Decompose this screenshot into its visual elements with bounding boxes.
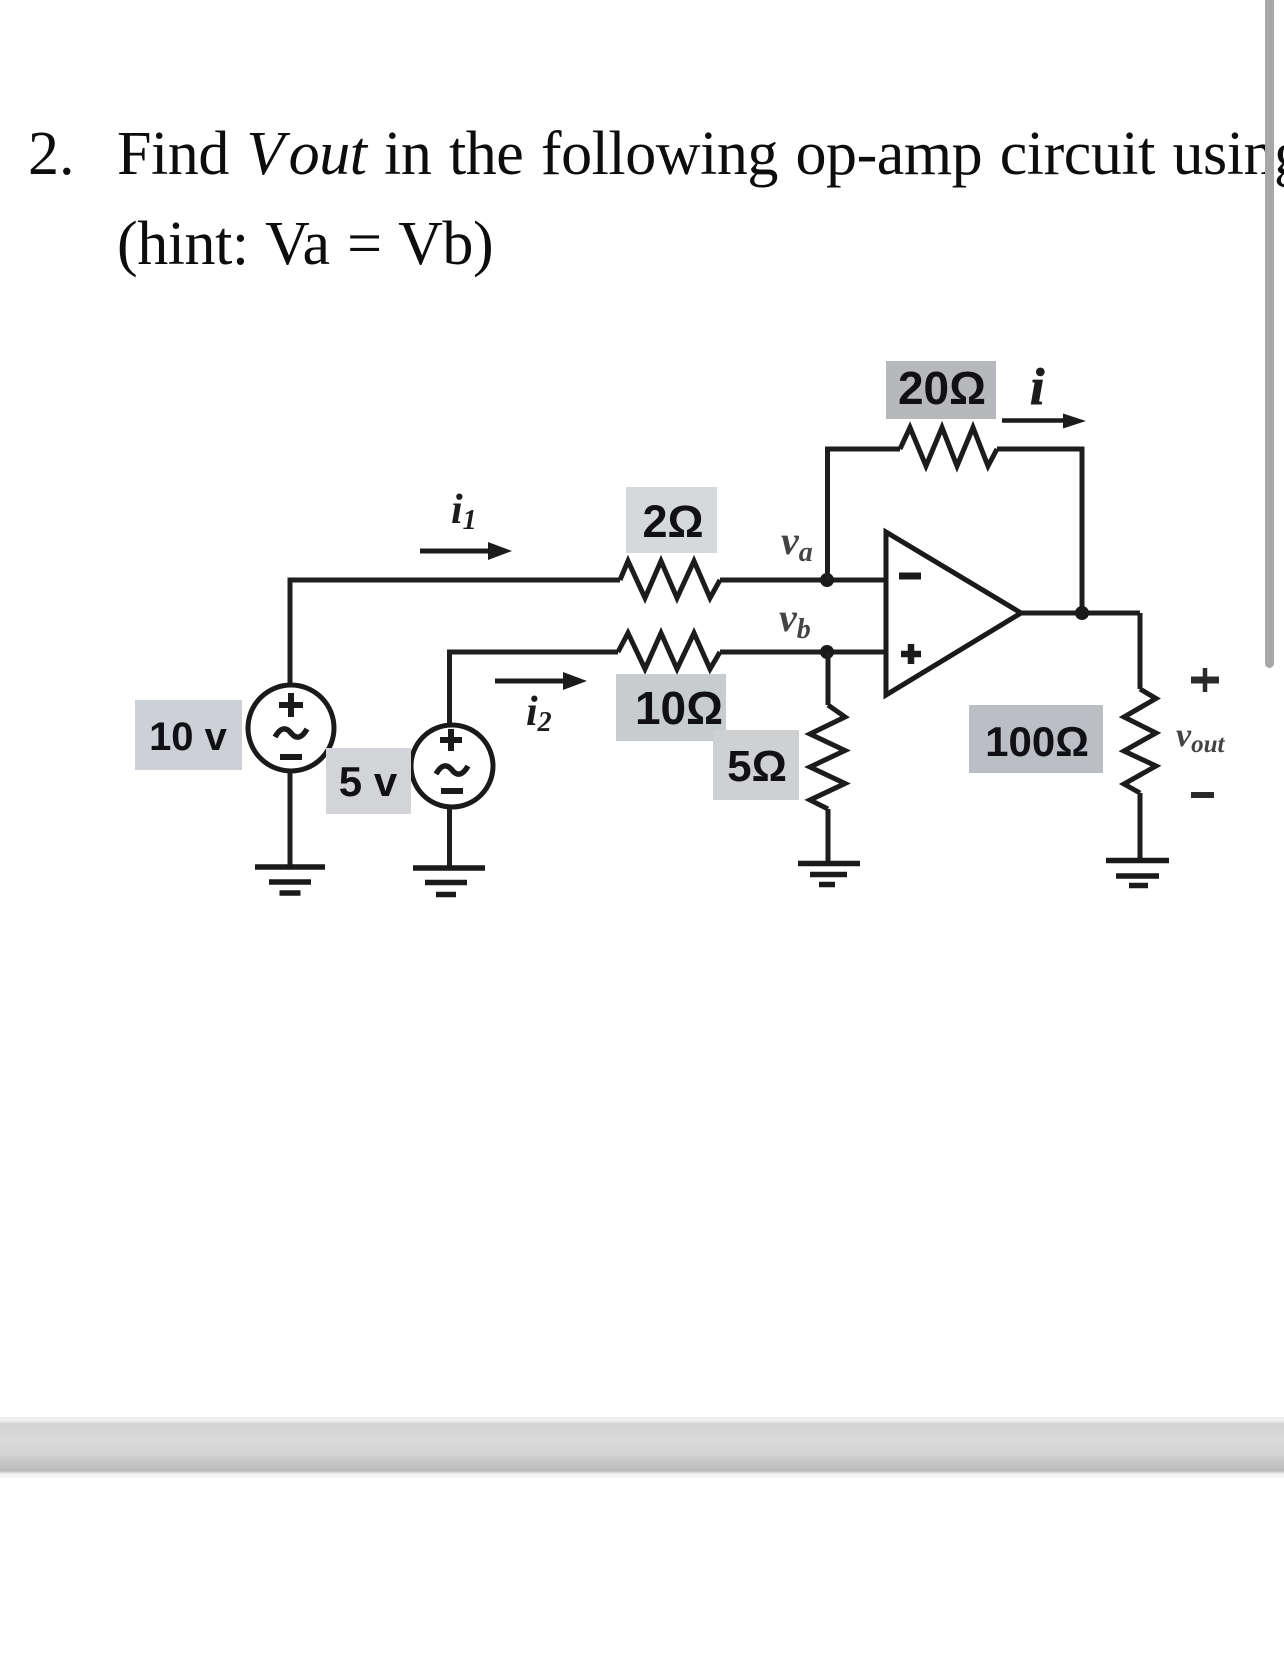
output node junction dot xyxy=(1075,606,1089,620)
ground under 5V source xyxy=(413,868,485,895)
wire from 10-ohm resistor to op-amp non-inverting input (node b) xyxy=(720,650,886,655)
value label 20-ohm xyxy=(886,361,996,419)
output voltage label vout xyxy=(1176,717,1225,758)
svg-text:vout: vout xyxy=(1176,717,1225,758)
voltage source V2 plus mark xyxy=(440,729,462,751)
wire from 2-ohm resistor to op-amp inverting input (node a) xyxy=(720,578,886,583)
svg-text:vb: vb xyxy=(779,595,811,645)
resistor 5-ohm vertical zigzag xyxy=(810,705,845,809)
problem number xyxy=(28,109,75,199)
resistor 20-ohm zigzag xyxy=(900,428,997,467)
voltage source V2 sine tilde xyxy=(436,766,468,774)
value label 100-ohm xyxy=(969,705,1103,773)
wire from 10V source down to ground xyxy=(288,771,293,865)
value label 10-ohm xyxy=(616,674,726,741)
svg-text:20Ω: 20Ω xyxy=(898,362,986,414)
node b label vb xyxy=(779,595,811,645)
svg-text:i: i xyxy=(1030,359,1045,416)
current arrow i1 xyxy=(420,542,512,560)
voltage source V1 plus mark xyxy=(279,693,303,717)
viewer bottom toolbar band xyxy=(0,1417,1284,1478)
viewer scrollbar thumb xyxy=(1265,0,1274,668)
voltage source V1 10V circle xyxy=(248,685,334,771)
current label i2 xyxy=(526,689,552,738)
op-amp non-inverting pin plus sign xyxy=(901,644,921,664)
op-amp U1 triangle xyxy=(886,532,1021,695)
wire from node b down to 5-ohm resistor xyxy=(826,652,831,705)
value label 5-ohm xyxy=(713,730,799,800)
current label i xyxy=(1030,359,1045,416)
ground under 10V source xyxy=(255,867,325,893)
node a label va xyxy=(781,518,813,568)
svg-text:i2: i2 xyxy=(526,689,552,738)
wire from output corner down to 100-ohm resistor xyxy=(1138,613,1143,689)
voltage source V2 5V circle xyxy=(411,725,493,807)
svg-text:2Ω: 2Ω xyxy=(642,496,703,547)
resistor 100-ohm vertical zigzag xyxy=(1124,689,1156,793)
ground under 5-ohm resistor xyxy=(798,864,860,885)
wire from 100-ohm resistor down to ground xyxy=(1138,793,1143,858)
wire from 10V source top up to top rail and right to 2-ohm resistor xyxy=(290,580,620,687)
resistor 2-ohm zigzag xyxy=(620,561,720,598)
voltage source V2 minus mark xyxy=(441,788,463,794)
svg-text:5 v: 5 v xyxy=(339,758,398,805)
feedback wire from node a up to 20-ohm resistor xyxy=(828,449,901,580)
svg-text:100Ω: 100Ω xyxy=(985,718,1089,765)
ground under 100-ohm load xyxy=(1106,861,1169,886)
svg-text:10 v: 10 v xyxy=(149,715,228,759)
output wire from op-amp to load branch xyxy=(1021,611,1140,616)
wire from 5V source down to ground xyxy=(447,807,452,866)
output polarity minus sign xyxy=(1191,792,1214,798)
voltage source V1 sine tilde xyxy=(275,729,307,737)
output polarity plus sign xyxy=(1191,668,1219,692)
current label i1 xyxy=(451,487,477,536)
op-amp inverting pin minus sign xyxy=(899,573,921,580)
current arrow i2 xyxy=(495,672,587,690)
wire from 5-ohm resistor down to ground xyxy=(826,809,831,861)
svg-text:5Ω: 5Ω xyxy=(727,742,787,791)
value label 10 V xyxy=(135,700,242,770)
svg-text:10Ω: 10Ω xyxy=(635,682,723,734)
node a junction dot xyxy=(820,573,834,587)
feedback wire from 20-ohm resistor down to output node xyxy=(997,449,1082,613)
voltage source V1 minus mark xyxy=(280,754,302,760)
value label 2-ohm xyxy=(626,487,717,553)
svg-text:va: va xyxy=(781,518,813,568)
svg-text:i1: i1 xyxy=(451,487,477,536)
node b junction dot xyxy=(820,645,834,659)
value label 5 V xyxy=(326,748,411,814)
current arrow i xyxy=(1002,414,1086,429)
wire from 5V source top up and right to 10-ohm resistor xyxy=(450,652,619,724)
problem statement text xyxy=(117,109,1284,289)
resistor 10-ohm zigzag xyxy=(618,633,720,669)
